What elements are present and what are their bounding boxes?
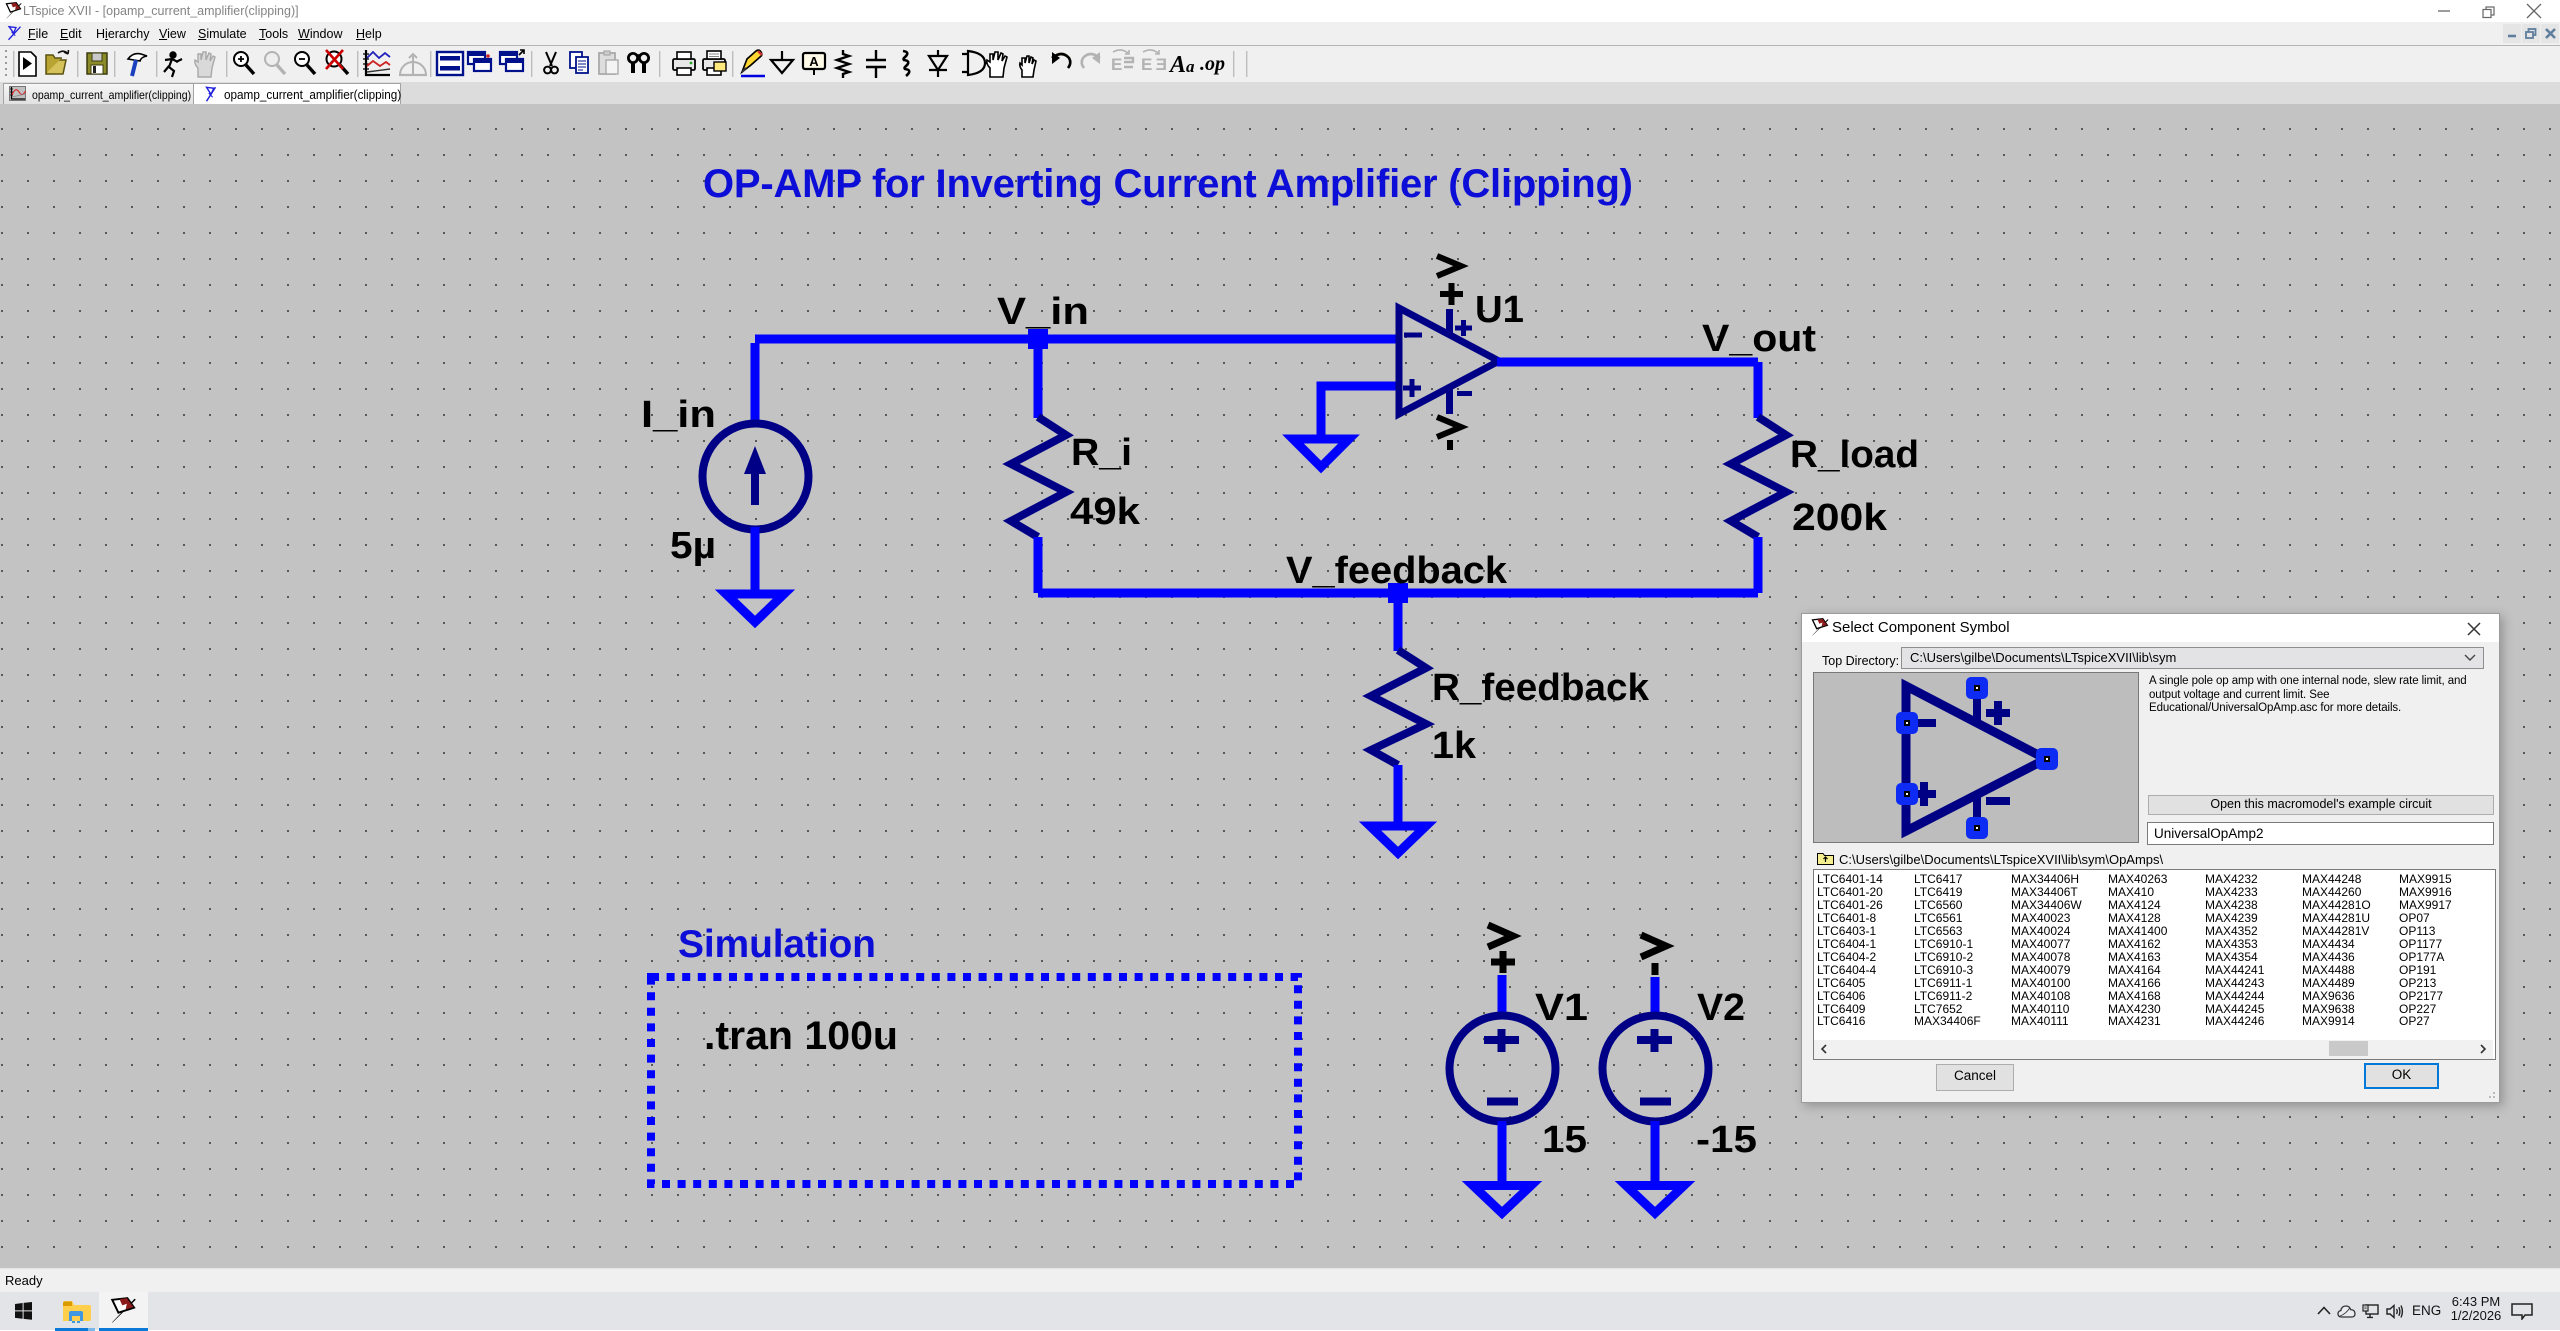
zoom out icon [295,52,315,74]
svg-text:R_load: R_load [1790,434,1919,476]
svg-text:15: 15 [1542,1119,1587,1161]
print icon [673,52,695,75]
svg-text:R_i: R_i [1071,432,1132,474]
net flag V+ above V1 [1488,925,1515,973]
drag handle dots [5,50,7,76]
dialog close button [2465,620,2483,638]
capacitor icon [866,50,886,78]
move hand icon [987,52,1007,77]
svg-text:A: A [809,54,819,69]
print preview icon [703,51,726,75]
active schematic tab [193,83,401,105]
start button [15,1302,32,1320]
ltspice active taskbar button [99,1292,148,1330]
wire R_i top [1034,339,1043,418]
undo icon [1052,52,1070,68]
find icon [628,53,648,73]
description text [2149,675,2469,716]
wire V_feedback horizontal [1038,589,1758,598]
svg-text:E: E [1141,55,1152,74]
wire pencil icon [741,50,765,76]
wire node to R_feedback [1394,603,1403,651]
preview pin pads [1896,677,2058,839]
tray ENG [2412,1303,2441,1318]
tray clock [2444,1295,2508,1322]
save icon [87,53,107,74]
wire +input to ground [1321,386,1399,436]
ground at +input [1293,439,1349,467]
tray speaker icon [2386,1304,2404,1319]
svg-text:A: A [1168,52,1186,78]
tray cloud icon [2337,1305,2356,1318]
svg-text:I_in: I_in [641,394,716,436]
zoom in icon [234,52,254,74]
svg-text:V2: V2 [1697,987,1745,1029]
LTspice app icon [5,2,23,20]
preview op-amp body [1906,686,2046,831]
voltage source V1 [1498,975,1507,1016]
net label icon [803,53,825,75]
halt icon (disabled hand) [195,52,215,77]
simulation dotted box [651,977,1298,1184]
inactive waves tab [3,83,194,104]
wire V2 bottom [1651,1121,1660,1183]
svg-text:-15: -15 [1696,1119,1757,1161]
svg-text:OP-AMP for Inverting Current A: OP-AMP for Inverting Current Amplifier (… [703,162,1633,206]
wire I_in to V_in [751,343,760,424]
wire I_in bottom [751,527,760,592]
protractor icon (disabled) [399,54,427,75]
ground V1 [1473,1186,1531,1214]
MDI child window buttons [2503,24,2521,43]
node V_feedback junction [1388,583,1408,603]
toolbar placeholder [0,46,2560,82]
window title bar [0,0,2560,22]
run icon [164,52,182,77]
wire V_out [1497,358,1758,367]
node V_in junction [1028,329,1048,349]
svg-text:V1: V1 [1535,987,1588,1029]
svg-text:5µ: 5µ [670,525,716,567]
symbol name field [2147,822,2494,845]
paste icon (disabled) [599,51,618,74]
new schematic icon [19,52,36,76]
OK button [2364,1063,2439,1089]
resistor icon [837,50,849,78]
tile windows icon [500,50,524,71]
autorange plot icon [363,50,390,75]
svg-text:V_feedback: V_feedback [1286,550,1508,592]
taskbar [0,1292,2560,1330]
diode icon [929,50,947,77]
symbol preview panel [1813,672,2139,843]
ground I_in [726,594,784,622]
symbol list box [1813,869,2496,1060]
ground R_feedback [1370,826,1426,853]
svg-text:E: E [1111,55,1122,74]
dialog title bar [1802,614,2499,642]
spice directive icon [1200,53,1225,75]
notification icon [2511,1303,2533,1320]
wire R_feedback bottom [1394,765,1403,822]
menu schematic icon [7,25,22,41]
open example circuit button [2148,795,2494,815]
copy icon [570,52,588,73]
net flag V+ above U1 [1437,256,1463,305]
control panel hammer icon [128,54,147,76]
ground symbol icon [771,51,793,73]
mirror icon (disabled) [1111,50,1133,74]
text icon [1168,52,1195,78]
list horizontal scrollbar [1814,1040,2493,1059]
tray network icon [2362,1304,2379,1319]
resistor R_feedback [1371,650,1426,765]
svg-text:.tran 100u: .tran 100u [704,1014,898,1058]
menu bar [0,22,2560,46]
svg-text:Simulation: Simulation [678,923,876,966]
separators [13,51,1247,77]
wire R_load bottom [1754,537,1763,593]
resize grip [2485,1092,2496,1100]
net flag V- above V2 [1641,935,1666,975]
svg-text:E: E [1156,55,1167,74]
status bar [0,1268,2560,1293]
wire V1 bottom [1498,1121,1507,1183]
svg-text:V_in: V_in [997,291,1089,333]
inductor icon [903,51,909,76]
rotate icon (disabled) [1141,50,1167,74]
component icon [962,51,991,75]
svg-text:a: a [1186,57,1195,76]
folder up icon and path [1817,851,1834,865]
resistor R_i [1011,417,1066,537]
zoom extents icon [326,50,348,74]
current source I_in [703,424,809,530]
wire R_i bottom [1034,537,1043,593]
drag hand icon [1020,56,1036,77]
svg-text:U1: U1 [1475,289,1524,331]
svg-text:49k: 49k [1070,491,1141,533]
svg-text:.op: .op [1200,53,1225,75]
Cancel button [1936,1064,2014,1091]
ground V2 [1626,1186,1684,1214]
svg-text:200k: 200k [1792,497,1888,539]
wire V_in top [755,335,1399,344]
wire V_out to R_load [1754,362,1763,418]
cut icon [544,52,558,73]
resistor R_load [1731,417,1786,537]
svg-text:V_out: V_out [1702,318,1816,360]
open icon [46,50,69,74]
svg-text:1k: 1k [1432,725,1477,767]
svg-text:R_feedback: R_feedback [1432,667,1650,709]
Top Directory row [1822,654,1899,668]
window controls [2430,0,2560,22]
dialog LTspice icon [1811,618,1830,637]
explorer running underline [55,1328,88,1331]
op-amp U1 [1399,308,1499,414]
tray chevron [2317,1306,2331,1315]
tab bar [0,82,2560,105]
voltage source V2 [1651,977,1660,1016]
net flag V- below U1 [1437,417,1461,450]
Select Component Symbol dialog [1801,613,2500,1103]
explorer taskbar icon [62,1300,92,1323]
cascade windows icon [468,52,491,71]
netlist rows icon [437,52,463,75]
zoom back icon (disabled) [265,52,285,74]
redo icon (disabled) [1082,52,1100,68]
